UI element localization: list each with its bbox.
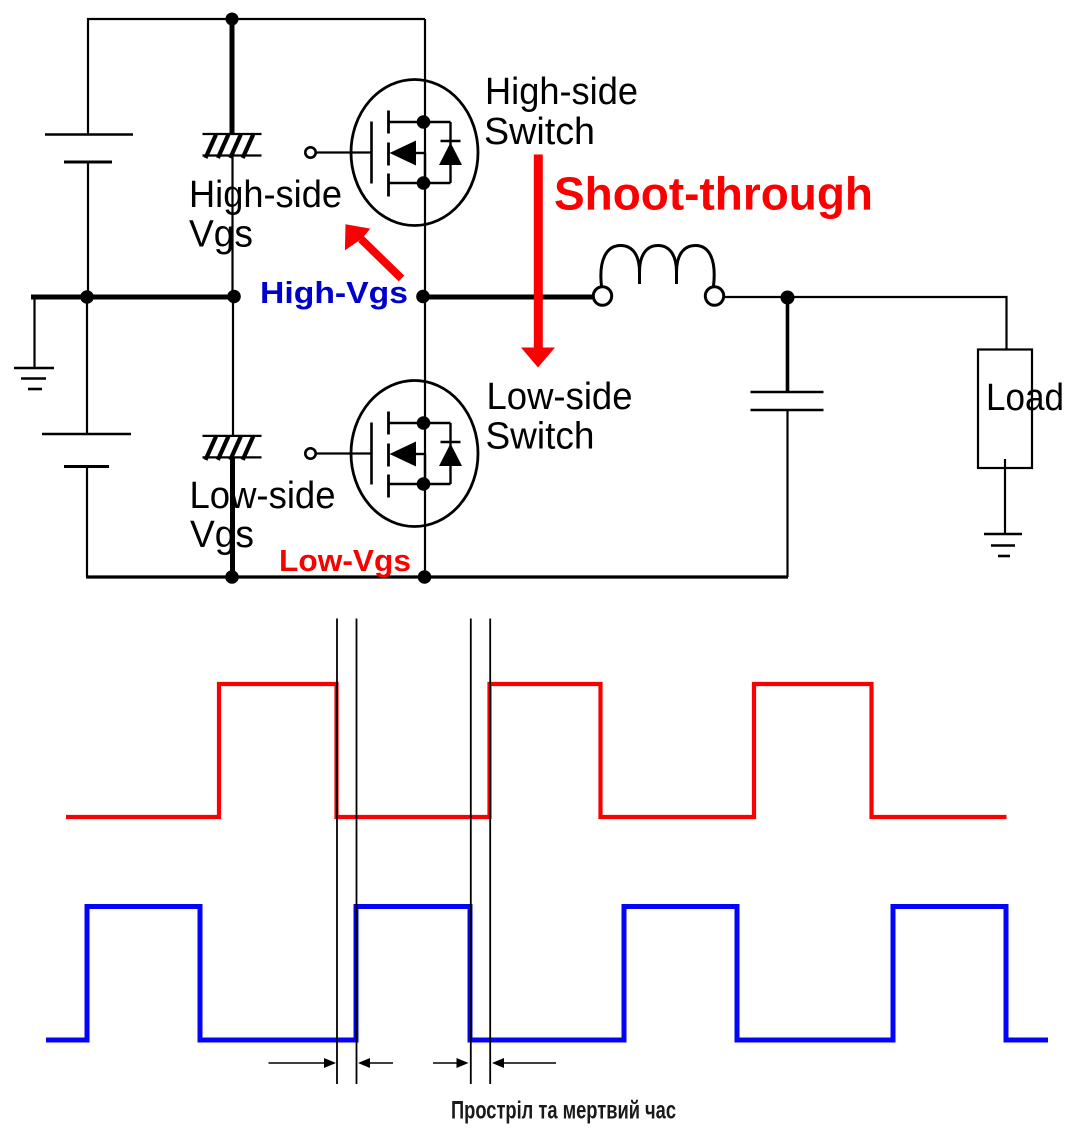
node bottom junction vgs [225,570,239,584]
label High-side Switch [484,71,638,153]
svg-text:Low-side: Low-side [190,475,336,517]
marker line dead-time 2b [489,619,491,1085]
ground right [984,534,1022,556]
wire bottom rail [86,575,788,578]
transistor Q2 low-side MOSFET [305,381,478,527]
label Low-side Vgs [190,475,336,556]
marker line dead-time 1b [356,619,358,1085]
label Low-side Switch [486,376,633,458]
dimension arrow 2 left [358,1058,393,1068]
dimension arrow 3 right [433,1058,469,1068]
node bottom junction switch [418,570,432,584]
transistor Q1 high-side MOSFET [305,80,478,226]
svg-text:Shoot-through: Shoot-through [554,168,873,220]
svg-text:Vgs: Vgs [189,214,253,256]
waveform low-side gate blue [46,907,1048,1041]
svg-text:Low-side: Low-side [487,376,633,418]
wire low-Vgs thick drop [230,458,235,578]
ground left [14,298,54,389]
label High-side Vgs [189,174,342,256]
svg-text:Load: Load [986,377,1064,419]
svg-text:Switch: Switch [486,416,595,458]
wire top rail [88,19,425,134]
wire mid rail thick right [423,295,594,300]
marker line dead-time 1a [336,619,338,1085]
waveform high-side gate red [66,684,1007,817]
svg-text:High-Vgs: High-Vgs [260,275,408,310]
node mid junction switch [416,290,430,304]
wire above low hatch [232,297,234,436]
svg-text:High-side: High-side [189,174,342,216]
wire inductor to load [724,297,1007,350]
wire high-Vgs thick drop [230,19,235,135]
marker line dead-time 2a [470,619,472,1085]
node output junction [781,291,795,305]
svg-text:Vgs: Vgs [190,514,254,556]
arrow high-vgs red diagonal [345,224,402,278]
svg-text:High-side: High-side [485,71,638,113]
wire switching leg vertical [424,19,426,577]
node mid junction battery [80,290,94,304]
capacitor C1 [751,298,824,578]
battery B1 [45,135,133,299]
node mid junction vgs [227,290,241,304]
wire below high hatch [231,156,233,297]
dimension arrow 4 left [492,1058,556,1068]
node top junction [226,13,239,26]
inductor L1 [593,246,723,306]
svg-text:Switch: Switch [484,111,595,153]
svg-text:Low-Vgs: Low-Vgs [279,543,411,578]
battery B2 [42,298,131,577]
resistor load box [978,350,1032,534]
arrow shoot-through red vertical [521,155,555,368]
svg-text:Простріл та мертвий час: Простріл та мертвий час [451,1097,676,1125]
wire mid rail thick left [31,295,235,300]
hatch bar high-side Vgs source [203,134,262,158]
hatch bar low-side Vgs source [203,436,262,460]
dimension arrow 1 right [269,1058,337,1068]
